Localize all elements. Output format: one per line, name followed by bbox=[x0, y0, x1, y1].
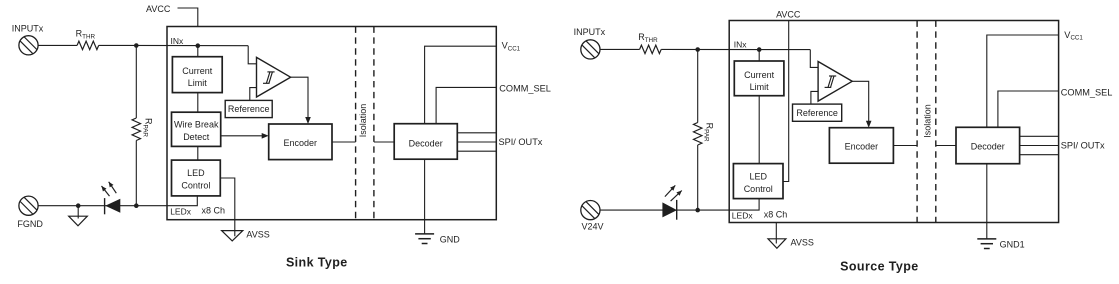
svg-text:COMM_SEL: COMM_SEL bbox=[1061, 87, 1113, 97]
svg-text:VCC1: VCC1 bbox=[1064, 30, 1083, 42]
wire RPAR lower bbox=[135, 141, 137, 206]
node junction input/RPAR bbox=[134, 43, 139, 48]
wire Reference to comparator - input (source) bbox=[811, 91, 818, 104]
svg-text:LEDx: LEDx bbox=[170, 207, 192, 217]
block Current Limit (sink) bbox=[172, 57, 222, 93]
wire LED Control to LEDx pin bbox=[167, 196, 197, 206]
wire INx to Current Limit (source) bbox=[758, 50, 760, 61]
ground GND symbol (sink) bbox=[415, 234, 434, 244]
svg-text:LEDx: LEDx bbox=[732, 211, 754, 221]
wire RPAR upper bbox=[135, 46, 137, 119]
svg-text:Encoder: Encoder bbox=[845, 141, 879, 151]
svg-text:Current: Current bbox=[744, 70, 775, 80]
label RPAR (sink) bbox=[141, 118, 153, 137]
svg-text:GND1: GND1 bbox=[1000, 239, 1025, 249]
wire comparator output to Encoder bbox=[291, 77, 308, 119]
wire RTHR to INx pin bbox=[99, 44, 249, 46]
isolation barrier dashed lines (source) bbox=[916, 21, 918, 223]
node junction INx/Current Limit (source) bbox=[757, 47, 762, 52]
wire LED Control to LEDx pin (source) bbox=[729, 199, 759, 211]
svg-text:x8 Ch: x8 Ch bbox=[202, 206, 226, 216]
LED D1 cathode bar bbox=[104, 198, 106, 214]
svg-text:Isolation: Isolation bbox=[358, 104, 368, 138]
wire FGND to LED bbox=[38, 205, 167, 207]
wire Decoder to GND1 bbox=[986, 164, 988, 239]
ground AVSS symbol (sink) bbox=[222, 231, 243, 241]
label RPAR (source) bbox=[703, 123, 715, 142]
wire Reference to comparator - input bbox=[250, 88, 257, 101]
wire AVCC to IC top bbox=[178, 8, 198, 27]
svg-text:Encoder: Encoder bbox=[284, 138, 318, 148]
terminal FGND bbox=[19, 196, 38, 215]
svg-text:VCC1: VCC1 bbox=[502, 41, 521, 53]
isolation barrier dashed lines (sink) bbox=[355, 27, 357, 220]
svg-text:Detect: Detect bbox=[183, 132, 210, 142]
terminal INPUTx (source) bbox=[581, 40, 600, 59]
svg-text:Decoder: Decoder bbox=[971, 142, 1005, 152]
wires SPI/OUTx (source) bbox=[1020, 135, 1059, 137]
svg-text:Source Type: Source Type bbox=[840, 259, 919, 273]
node junction LED/RPAR (source) bbox=[695, 208, 700, 213]
node junction INx/Current Limit bbox=[196, 43, 201, 48]
svg-text:GND: GND bbox=[440, 234, 461, 244]
svg-text:AVCC: AVCC bbox=[776, 9, 801, 19]
wire junction to ground triangle bbox=[77, 206, 79, 219]
svg-text:INPUTx: INPUTx bbox=[574, 27, 606, 37]
wire Current Limit to Wire Break Detect bbox=[197, 93, 199, 113]
wire Wire Break Detect to LED Control bbox=[197, 146, 199, 160]
IC boundary box (sink) bbox=[167, 27, 496, 220]
resistor RPAR (sink) bbox=[132, 118, 140, 141]
svg-text:INx: INx bbox=[734, 40, 748, 50]
svg-text:LED: LED bbox=[187, 168, 205, 178]
svg-text:Current: Current bbox=[182, 66, 213, 76]
svg-text:RPAR: RPAR bbox=[141, 118, 153, 137]
wire Decoder to GND bbox=[424, 159, 426, 234]
block Reference (sink) bbox=[225, 100, 272, 117]
ground GND1 symbol bbox=[977, 239, 996, 249]
wire INx to comparator + input (source) bbox=[810, 50, 818, 68]
svg-text:Limit: Limit bbox=[750, 82, 770, 92]
wire VCC1 (source) bbox=[987, 35, 1059, 127]
svg-text:AVCC: AVCC bbox=[146, 4, 171, 14]
wire Current Limit to LED Control (source) bbox=[758, 96, 760, 164]
terminal INPUTx (sink) bbox=[19, 36, 38, 55]
LED D2 cathode bar bbox=[676, 200, 678, 220]
node junction LED/RPAR (sink) bbox=[134, 203, 139, 208]
ground triangle at FGND junction bbox=[69, 216, 88, 226]
svg-text:Reference: Reference bbox=[228, 104, 270, 114]
svg-text:SPI/ OUTx: SPI/ OUTx bbox=[1061, 141, 1105, 151]
svg-text:COMM_SEL: COMM_SEL bbox=[499, 84, 551, 94]
svg-text:Control: Control bbox=[744, 184, 773, 194]
wire COMM_SEL (source) bbox=[998, 91, 1059, 127]
block Encoder (sink) bbox=[269, 124, 332, 160]
op-amp comparator U2 (schmitt) bbox=[818, 62, 852, 102]
wire COMM_SEL (sink) bbox=[436, 87, 496, 123]
block Current Limit (source) bbox=[734, 61, 784, 96]
block Reference (source) bbox=[793, 104, 842, 121]
svg-text:RTHR: RTHR bbox=[638, 32, 658, 44]
wire LED Control to AVSS bbox=[220, 178, 235, 236]
wire/arrow Wire Break Detect to Encoder bbox=[221, 135, 263, 137]
wire VCC1 (sink) bbox=[425, 46, 497, 124]
wire RPAR upper (source) bbox=[697, 50, 699, 123]
terminal V24V bbox=[581, 201, 600, 220]
wire Encoder to Decoder (source) bbox=[893, 145, 917, 147]
LED D2 (source) with emission arrows bbox=[662, 185, 681, 219]
node junction input/RPAR (source) bbox=[695, 47, 700, 52]
node junction FGND/ground bbox=[76, 203, 81, 208]
svg-text:INx: INx bbox=[171, 36, 185, 46]
LED D1 (sink) with emission arrows bbox=[102, 182, 121, 215]
svg-text:FGND: FGND bbox=[17, 219, 43, 229]
wires SPI/OUTx (sink) bbox=[457, 132, 496, 134]
wire Encoder to Decoder bbox=[332, 141, 356, 143]
svg-text:RPAR: RPAR bbox=[703, 123, 715, 142]
svg-text:Decoder: Decoder bbox=[409, 138, 443, 148]
svg-text:Reference: Reference bbox=[796, 108, 838, 118]
wire AVCC rail to LED Control (source) bbox=[783, 21, 789, 182]
block LED Control (sink) bbox=[172, 160, 221, 196]
block Decoder (source) bbox=[956, 127, 1020, 163]
wire RPAR lower (source) bbox=[697, 145, 699, 210]
svg-text:LED: LED bbox=[749, 172, 767, 182]
svg-text:x8 Ch: x8 Ch bbox=[764, 209, 788, 219]
block Wire Break Detect bbox=[172, 112, 221, 146]
wire RTHR to INx pin (source) bbox=[661, 48, 810, 50]
svg-text:AVSS: AVSS bbox=[246, 230, 269, 240]
wire INx to Current Limit bbox=[197, 46, 199, 57]
ground AVSS symbol (source) bbox=[768, 239, 786, 249]
svg-text:Wire Break: Wire Break bbox=[174, 120, 219, 130]
wire INPUTx to RTHR bbox=[38, 44, 77, 46]
resistor RTHR (sink) bbox=[77, 41, 99, 49]
svg-text:Sink Type: Sink Type bbox=[286, 255, 348, 269]
resistor RPAR (source) bbox=[694, 123, 702, 146]
svg-text:INPUTx: INPUTx bbox=[12, 24, 44, 34]
wire IC bottom to AVSS (source) bbox=[775, 223, 777, 244]
svg-text:Control: Control bbox=[181, 180, 210, 190]
hysteresis symbol (source) bbox=[825, 76, 837, 87]
wire comparator output to Encoder (source) bbox=[852, 81, 869, 123]
svg-text:AVSS: AVSS bbox=[791, 237, 814, 247]
wire V24V to LED (source) bbox=[600, 209, 729, 211]
IC boundary box (source) bbox=[729, 21, 1058, 223]
svg-text:RTHR: RTHR bbox=[76, 29, 96, 41]
block LED Control (source) bbox=[733, 164, 783, 199]
resistor RTHR (source) bbox=[640, 45, 662, 53]
wire INx to comparator + input bbox=[248, 46, 256, 64]
op-amp comparator U1 (schmitt) bbox=[257, 57, 291, 97]
svg-text:Isolation: Isolation bbox=[923, 104, 933, 138]
svg-text:SPI/ OUTx: SPI/ OUTx bbox=[499, 137, 543, 147]
hysteresis symbol (sink) bbox=[263, 72, 275, 83]
svg-text:Limit: Limit bbox=[188, 78, 208, 88]
block Decoder (sink) bbox=[394, 124, 457, 160]
svg-text:V24V: V24V bbox=[582, 222, 604, 232]
block Encoder (source) bbox=[829, 128, 893, 164]
wire INPUTx to RTHR (source) bbox=[600, 48, 640, 50]
